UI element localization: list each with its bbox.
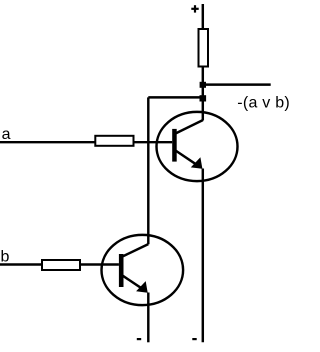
svg-text:b: b xyxy=(1,248,10,265)
svg-text:-(a v b): -(a v b) xyxy=(237,95,290,112)
svg-text:a: a xyxy=(2,126,11,143)
